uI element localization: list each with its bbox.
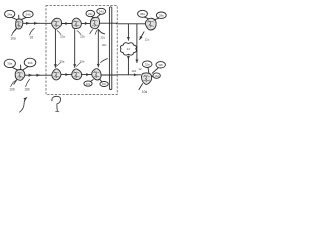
balloon 32a [142, 61, 152, 68]
balloon 24c above pump 12c [86, 10, 95, 16]
lead balloon 24d to pump 12c [97, 14, 101, 17]
pump 12e tail lead [139, 84, 143, 90]
branch channel into reservoir 14 [127, 24, 129, 40]
svg-text:16d: 16d [154, 74, 159, 78]
svg-text:24b: 24b [25, 13, 30, 17]
pump 10a [16, 19, 23, 29]
pump 12b [72, 18, 81, 28]
svg-text:30a: 30a [7, 62, 12, 66]
svg-text:10a: 10a [10, 36, 16, 40]
svg-text:12c: 12c [145, 38, 150, 42]
pump 10b tail lead [14, 80, 17, 85]
transfer channel 22a [54, 30, 56, 68]
wire pump 12a to pump 12b [61, 23, 68, 25]
leader squiggle arrow right [52, 96, 61, 111]
lead from balloon 24a to pump 10a [12, 18, 18, 20]
reservoir 14 (cloud) [120, 43, 136, 55]
svg-text:28b: 28b [159, 14, 164, 18]
pump 12a [52, 18, 62, 29]
branch channel along reservoir [136, 24, 138, 63]
lead balloon 28a to pump 12d [145, 17, 149, 18]
wire pump 10b to pump 20a with flow arrows [25, 74, 52, 76]
svg-text:10b: 10b [9, 88, 15, 92]
svg-text:24c: 24c [88, 12, 93, 16]
leader arrow to label 10b [11, 81, 16, 87]
svg-text:20b: 20b [80, 59, 85, 63]
svg-text:20a: 20a [60, 59, 65, 63]
wire pump 12c to membrane [100, 22, 117, 24]
wire pump 10a to pump 12a with flow arrows [23, 22, 52, 24]
svg-text:22b: 22b [80, 35, 85, 39]
transfer channel 22c [97, 30, 99, 67]
balloon 28b [156, 12, 166, 18]
balloon 32b [156, 62, 165, 68]
balloon 30a [4, 59, 15, 67]
wire from enclosure to pump 12d [117, 23, 146, 25]
svg-text:14: 14 [127, 47, 131, 51]
balloon 24a [5, 10, 15, 17]
svg-text:12: 12 [138, 67, 142, 71]
svg-text:28a: 28a [140, 12, 145, 16]
label above channel 22a [57, 31, 65, 39]
label above channel 22b [77, 31, 85, 39]
wire pump 20c to membrane [101, 74, 116, 76]
lead balloon 30a to pump 10b [12, 67, 18, 70]
wire enclosure to pump 12e [117, 74, 138, 76]
wire pump 12b to pump 12c [81, 22, 88, 24]
svg-text:22a: 22a [60, 35, 65, 39]
dashed enclosure box 26 [46, 6, 117, 95]
svg-text:24a: 24a [7, 12, 12, 16]
membrane 18 (tall bar) [109, 7, 111, 90]
leader arrow to label 10a [12, 30, 17, 36]
transfer channel 22b [74, 30, 76, 68]
pump 20a [52, 69, 61, 80]
pump 12c [90, 17, 99, 28]
label below channel 22a [57, 59, 65, 66]
svg-text:16: 16 [30, 36, 34, 40]
channel reservoir 14 outlet [127, 56, 129, 59]
leader arrows below pump 12c [90, 30, 93, 34]
pump 10b [15, 70, 25, 81]
balloon 30b [24, 58, 36, 67]
label below channel 22b [76, 59, 84, 66]
lead balloon 24c to pump 12c [92, 17, 94, 18]
leader arrow to label 16b [26, 79, 30, 86]
svg-text:10d: 10d [142, 90, 148, 94]
balloon 16c right below pump 20c [100, 82, 108, 87]
pump 12d [145, 18, 156, 30]
wire pump 20b to pump 20c [81, 74, 89, 76]
lead on membrane 18 [99, 30, 105, 34]
pump 20b [72, 69, 82, 80]
lead from balloon 24b to pump 10a [20, 17, 26, 20]
svg-text:12d: 12d [131, 69, 136, 73]
wire pump 20a to pump 20b [61, 74, 68, 76]
lead balloon 28b to pump 12d [154, 18, 159, 20]
lead balloon 10c to pump 20c [91, 80, 94, 82]
pump 10a tail lead [13, 28, 16, 32]
balloon 24d above pump 12c [97, 8, 106, 14]
svg-text:20c: 20c [102, 43, 107, 47]
svg-text:22c: 22c [100, 35, 105, 39]
lead balloon 32b to pump 12e [152, 68, 158, 73]
leader to membrane lower [101, 59, 108, 63]
lead balloon 30b to pump 10b [22, 67, 28, 71]
lead balloon 16c to pump 20c [100, 79, 102, 82]
lead balloon 32a to pump 12e [147, 68, 150, 73]
svg-text:24d: 24d [99, 10, 104, 14]
svg-text:32a: 32a [145, 63, 150, 67]
svg-text:10c: 10c [86, 82, 91, 86]
pump 12e [142, 73, 152, 84]
lead balloon 16d to pump 12e [152, 75, 153, 77]
svg-text:16c: 16c [102, 82, 107, 86]
leader squiggle arrow left [20, 98, 27, 113]
leader arrow to label 16a [30, 28, 35, 35]
balloon 10c left below pump 20c [84, 81, 92, 86]
balloon 28a [138, 10, 148, 17]
svg-text:30b: 30b [27, 61, 32, 65]
arrow pump 12d to reservoir 14 [140, 32, 144, 40]
svg-text:16b: 16b [24, 88, 30, 92]
balloon 24b [23, 11, 33, 18]
svg-text:32b: 32b [158, 63, 163, 67]
pump 20c [92, 69, 101, 80]
balloon 16d [153, 73, 160, 78]
